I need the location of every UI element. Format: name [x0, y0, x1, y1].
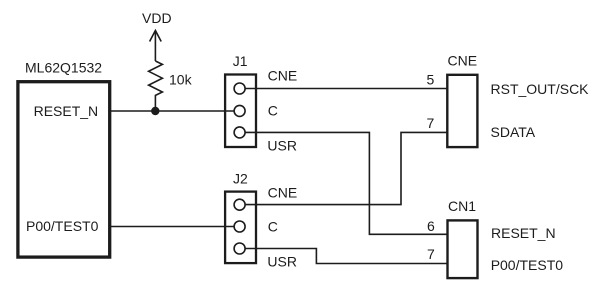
svg-text:P00/TEST0: P00/TEST0 [491, 257, 564, 273]
svg-text:RESET_N: RESET_N [491, 225, 556, 241]
power VDD [142, 10, 172, 61]
junction node RESET_N [151, 107, 159, 115]
svg-text:10k: 10k [169, 72, 193, 88]
wire P00/TEST0 net: ML62Q1532 to J2 pin C [110, 226, 240, 228]
svg-text:USR: USR [267, 137, 297, 153]
svg-text:CNE: CNE [448, 53, 478, 69]
wire CNE pin 7 to J2 CNE [240, 132, 448, 204]
svg-text:RST_OUT/SCK: RST_OUT/SCK [491, 81, 590, 97]
svg-text:6: 6 [427, 218, 435, 234]
wire RESET_N net: ML62Q1532 to J1 pin C [110, 110, 240, 112]
svg-text:P00/TEST0: P00/TEST0 [26, 218, 99, 234]
connector J1 [225, 53, 256, 147]
resistor R1 10k [149, 61, 163, 111]
wire J1 USR to CN1 pin 6 [240, 132, 448, 234]
svg-text:VDD: VDD [142, 10, 172, 26]
svg-text:RESET_N: RESET_N [34, 103, 99, 119]
connector J2 [225, 171, 256, 264]
svg-text:7: 7 [427, 246, 435, 262]
svg-text:J1: J1 [233, 53, 248, 69]
svg-text:ML62Q1532: ML62Q1532 [25, 60, 102, 76]
svg-text:7: 7 [427, 115, 435, 131]
svg-text:5: 5 [427, 72, 435, 88]
svg-text:USR: USR [267, 254, 297, 270]
IC ML62Q1532 [18, 60, 110, 258]
wire J1 CNE to CNE pin 5 [240, 88, 448, 90]
wire J2 USR to CN1 pin 7 [240, 249, 448, 264]
svg-text:CNE: CNE [268, 184, 298, 200]
connector CNE [447, 53, 477, 147]
svg-text:C: C [268, 219, 278, 235]
svg-text:CN1: CN1 [448, 198, 476, 214]
connector CN1 [448, 198, 478, 278]
svg-text:CNE: CNE [268, 67, 298, 83]
svg-text:J2: J2 [233, 171, 248, 187]
svg-text:C: C [268, 102, 278, 118]
svg-text:SDATA: SDATA [491, 124, 536, 140]
